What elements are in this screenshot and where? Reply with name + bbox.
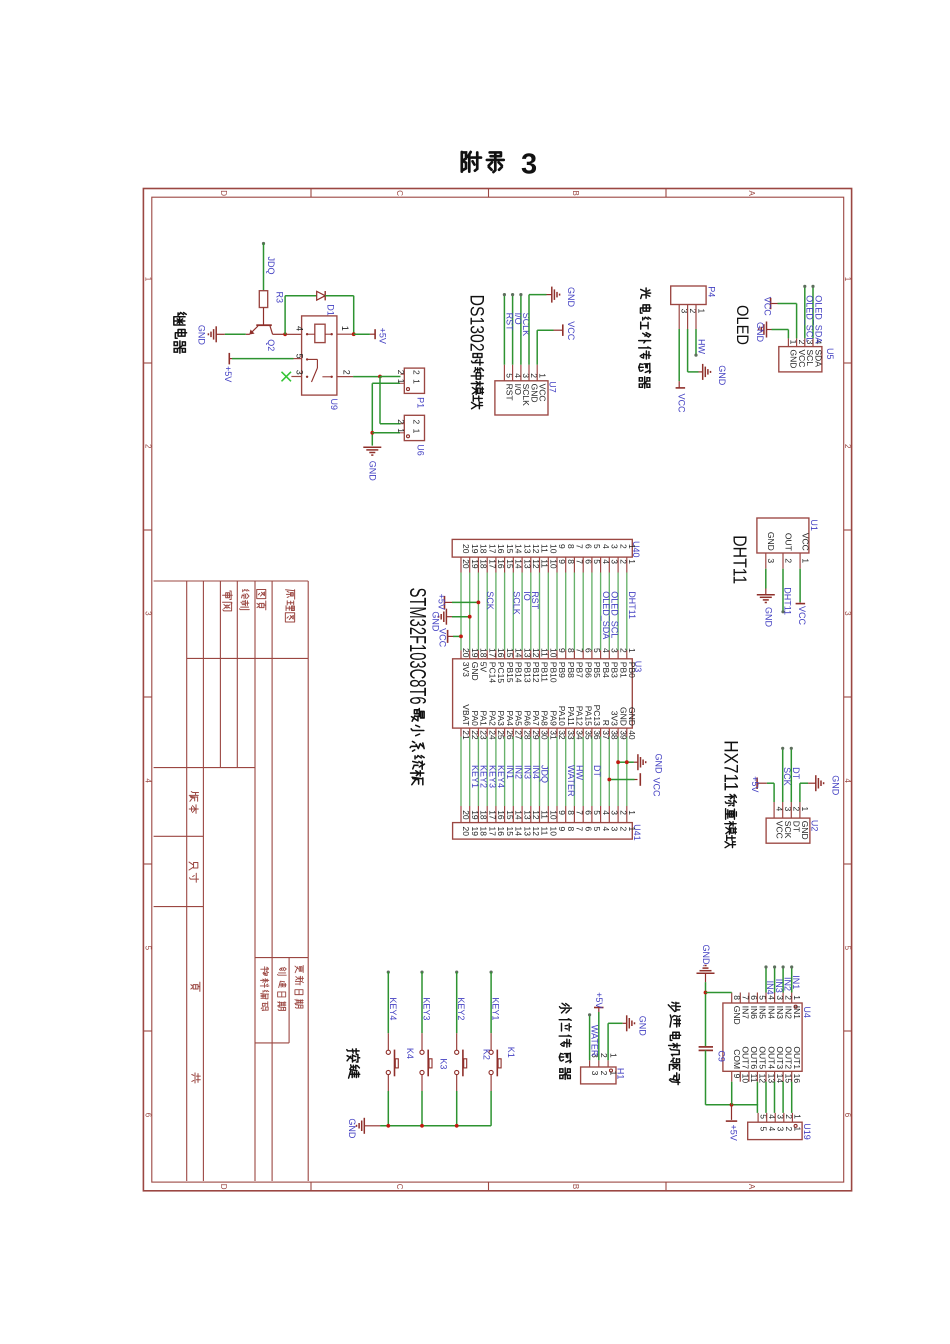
svg-text:B: B: [571, 191, 580, 196]
svg-text:GND: GND: [717, 365, 727, 386]
svg-text:VCC: VCC: [566, 321, 576, 341]
svg-text:1: 1: [143, 277, 152, 282]
svg-text:PA3: PA3: [496, 710, 506, 726]
svg-text:C: C: [395, 1184, 404, 1190]
svg-text:31: 31: [549, 730, 559, 740]
svg-text:2: 2: [599, 1071, 609, 1076]
svg-text:DHT11: DHT11: [783, 587, 793, 615]
svg-text:1: 1: [412, 379, 422, 384]
svg-text:SCK: SCK: [485, 591, 495, 610]
svg-text:HW: HW: [575, 765, 585, 780]
svg-text:DHT11: DHT11: [627, 591, 637, 619]
svg-text:DS1302: DS1302: [465, 295, 486, 352]
svg-text:+5V: +5V: [378, 328, 388, 344]
svg-text:SCK: SCK: [783, 821, 793, 839]
svg-text:IN4: IN4: [531, 765, 541, 779]
svg-text:3: 3: [294, 370, 304, 375]
svg-text:K1: K1: [506, 1047, 516, 1058]
svg-text:K3: K3: [439, 1058, 449, 1069]
svg-text:JDQ: JDQ: [266, 257, 276, 275]
svg-text:PA4: PA4: [505, 710, 515, 726]
svg-text:+5V: +5V: [728, 1125, 738, 1141]
svg-text:DT: DT: [791, 767, 801, 779]
svg-text:PA5: PA5: [514, 710, 524, 726]
svg-text:20: 20: [461, 648, 471, 658]
svg-text:D1: D1: [326, 304, 336, 316]
svg-text:2: 2: [412, 370, 422, 375]
svg-text:KEY1: KEY1: [470, 765, 480, 788]
svg-text:1: 1: [800, 807, 810, 812]
svg-text:40: 40: [627, 730, 637, 740]
svg-text:IN2: IN2: [514, 765, 524, 779]
svg-text:WATER: WATER: [589, 1025, 599, 1057]
svg-text:R3: R3: [274, 292, 284, 304]
svg-text:DT: DT: [792, 821, 802, 832]
svg-text:IO: IO: [522, 591, 532, 601]
svg-text:6: 6: [143, 1113, 152, 1118]
svg-text:5: 5: [143, 946, 152, 951]
svg-text:1: 1: [412, 429, 422, 434]
svg-text:P4: P4: [706, 286, 716, 297]
svg-text:36: 36: [592, 730, 602, 740]
svg-text:IN1: IN1: [505, 765, 515, 779]
svg-text:KEY3: KEY3: [422, 997, 432, 1020]
svg-text:GND: GND: [637, 1016, 647, 1036]
svg-text:5: 5: [843, 946, 852, 951]
svg-text:6: 6: [843, 1113, 852, 1118]
svg-text:4: 4: [294, 326, 304, 331]
svg-text:B: B: [571, 1184, 580, 1189]
svg-text:VCC: VCC: [801, 533, 811, 551]
svg-text:SDA: SDA: [813, 350, 823, 368]
svg-text:5: 5: [294, 354, 304, 359]
svg-text:2: 2: [843, 444, 852, 449]
svg-text:20: 20: [461, 544, 471, 554]
svg-text:3V3: 3V3: [461, 662, 471, 677]
svg-text:2: 2: [784, 1127, 794, 1132]
svg-text:PA15: PA15: [583, 706, 593, 726]
svg-text:PA2: PA2: [487, 710, 497, 726]
svg-text:GND: GND: [347, 1118, 357, 1139]
svg-text:KEY2: KEY2: [456, 997, 466, 1020]
svg-text:C: C: [395, 190, 404, 196]
svg-text:3: 3: [521, 149, 537, 181]
svg-text:U7: U7: [547, 381, 557, 393]
svg-text:PC13: PC13: [592, 705, 602, 727]
svg-text:D: D: [219, 1184, 228, 1190]
svg-text:K2: K2: [482, 1049, 492, 1060]
svg-text:OLED: OLED: [733, 305, 752, 345]
svg-text:1: 1: [801, 558, 811, 563]
svg-text:K4: K4: [405, 1048, 415, 1059]
svg-text:IN3: IN3: [522, 765, 532, 779]
svg-text:PA1: PA1: [479, 710, 489, 726]
svg-text:+5V: +5V: [437, 594, 447, 610]
svg-text:DT: DT: [592, 765, 602, 777]
svg-text:PA11: PA11: [566, 706, 576, 726]
svg-text:GND: GND: [755, 322, 765, 343]
svg-text:+5V: +5V: [594, 992, 604, 1008]
svg-text:C9: C9: [717, 1050, 727, 1062]
svg-text:33: 33: [566, 730, 576, 740]
svg-text:1: 1: [793, 1114, 803, 1119]
svg-text:PA7: PA7: [531, 710, 541, 726]
svg-text:PA0: PA0: [470, 710, 480, 726]
svg-text:3V3: 3V3: [610, 711, 620, 726]
svg-text:GND: GND: [766, 532, 776, 551]
svg-text:VCC: VCC: [677, 394, 687, 414]
svg-text:VCC: VCC: [763, 297, 773, 317]
svg-text:3: 3: [843, 611, 852, 616]
svg-text:VBAT: VBAT: [461, 704, 471, 726]
svg-text:3: 3: [766, 558, 776, 563]
svg-text:OLED_SCL: OLED_SCL: [804, 295, 814, 342]
svg-text:GND: GND: [196, 325, 206, 346]
svg-text:KEY4: KEY4: [496, 765, 506, 788]
svg-text:GND: GND: [566, 287, 576, 308]
svg-text:GND.: GND.: [701, 945, 711, 968]
svg-text:U5: U5: [825, 348, 835, 360]
svg-text:A: A: [747, 191, 756, 197]
svg-text:8: 8: [732, 995, 742, 1000]
svg-text:2: 2: [342, 370, 352, 375]
svg-text:OLED_SDA: OLED_SDA: [813, 295, 823, 343]
svg-text:GND: GND: [654, 754, 664, 775]
svg-text:1: 1: [843, 277, 852, 282]
svg-text:R: R: [601, 720, 611, 726]
svg-text:P1: P1: [416, 397, 426, 408]
svg-text:GND: GND: [763, 607, 773, 628]
svg-text:2: 2: [396, 370, 406, 375]
svg-text:1: 1: [396, 428, 406, 433]
svg-text:COM: COM: [732, 1049, 742, 1069]
svg-text:OUT: OUT: [783, 533, 793, 551]
svg-text:GND: GND: [368, 461, 378, 482]
svg-text:GND: GND: [732, 1006, 742, 1025]
svg-text:3: 3: [143, 611, 152, 616]
svg-text:VCC: VCC: [774, 821, 784, 839]
svg-text:A: A: [747, 1184, 756, 1190]
svg-text:+5V: +5V: [223, 366, 233, 382]
svg-text:U1: U1: [809, 519, 819, 531]
svg-text:U6: U6: [416, 444, 426, 456]
svg-text:PA9: PA9: [549, 710, 559, 726]
svg-text:VCC: VCC: [438, 628, 448, 648]
svg-text:GND: GND: [618, 707, 628, 726]
svg-text:1: 1: [608, 1071, 618, 1076]
svg-text:PA10: PA10: [557, 706, 567, 726]
svg-text:1: 1: [396, 379, 406, 384]
svg-text:KEY2: KEY2: [479, 765, 489, 788]
svg-text:20: 20: [461, 810, 471, 820]
svg-text:34: 34: [575, 730, 585, 740]
svg-text:1: 1: [608, 1053, 618, 1058]
svg-text:VCC: VCC: [797, 606, 807, 626]
svg-text:U19: U19: [802, 1123, 812, 1140]
svg-text:PA12: PA12: [575, 706, 585, 726]
svg-text:HW: HW: [697, 339, 707, 354]
svg-text:1: 1: [340, 326, 350, 331]
svg-text:2: 2: [412, 420, 422, 425]
svg-text:5: 5: [758, 1127, 768, 1132]
svg-text:JDQ: JDQ: [540, 765, 550, 783]
svg-text:2: 2: [143, 444, 152, 449]
svg-text:KEY1: KEY1: [491, 997, 501, 1020]
svg-text:20: 20: [461, 827, 471, 837]
svg-text:Q2: Q2: [266, 339, 276, 351]
svg-text:KEY3: KEY3: [487, 765, 497, 788]
svg-text:4: 4: [143, 778, 152, 783]
svg-text:SCLK: SCLK: [511, 591, 521, 615]
svg-text:STM32F103C8T6: STM32F103C8T6: [405, 588, 431, 705]
svg-text:2: 2: [783, 558, 793, 563]
svg-text:GND: GND: [831, 775, 841, 796]
svg-text:2: 2: [396, 419, 406, 424]
svg-text:20: 20: [461, 559, 471, 569]
svg-text:+5V: +5V: [750, 776, 760, 792]
svg-text:KEY4: KEY4: [388, 997, 398, 1020]
svg-text:32: 32: [557, 730, 567, 740]
svg-text:OLED_SDA: OLED_SDA: [601, 591, 611, 639]
svg-text:37: 37: [601, 730, 611, 740]
svg-text:3: 3: [776, 1127, 786, 1132]
svg-text:DHT11: DHT11: [729, 535, 749, 584]
svg-text:4: 4: [843, 778, 852, 783]
svg-text:U9: U9: [329, 399, 339, 411]
svg-text:VCC: VCC: [538, 384, 548, 402]
svg-text:WATER: WATER: [566, 765, 576, 797]
svg-text:38: 38: [610, 730, 620, 740]
svg-text:D: D: [219, 190, 228, 196]
svg-text:PA6: PA6: [522, 710, 532, 726]
svg-text:IN4: IN4: [765, 981, 775, 995]
svg-text:39: 39: [618, 730, 628, 740]
svg-text:GND: GND: [800, 821, 810, 840]
svg-text:1: 1: [537, 373, 547, 378]
svg-text:9: 9: [732, 1074, 742, 1079]
svg-text:35: 35: [583, 730, 593, 740]
svg-text:4: 4: [767, 1127, 777, 1132]
svg-text:1: 1: [793, 1127, 803, 1132]
svg-text:3: 3: [590, 1071, 600, 1076]
svg-text:VCC: VCC: [651, 778, 661, 798]
svg-text:GND: GND: [627, 707, 637, 726]
svg-text:U4: U4: [802, 1006, 812, 1018]
svg-text:1: 1: [696, 309, 706, 314]
svg-text:HX711: HX711: [719, 740, 740, 791]
svg-text:PA8: PA8: [540, 710, 550, 726]
